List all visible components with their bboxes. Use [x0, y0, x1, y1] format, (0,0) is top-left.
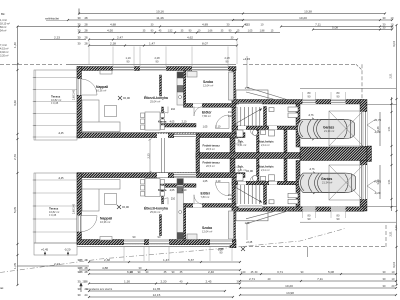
svg-text:Kamra: Kamra — [158, 120, 167, 124]
svg-text:±0,00: ±0,00 — [246, 169, 253, 173]
svg-text:54 m²: 54 m² — [0, 30, 7, 33]
svg-text:+0,45: +0,45 — [41, 248, 49, 252]
svg-text:7,11: 7,11 — [315, 23, 321, 27]
svg-text:28: 28 — [85, 266, 88, 270]
svg-text:4,50: 4,50 — [107, 29, 113, 33]
svg-text:±0,00: ±0,00 — [123, 96, 130, 100]
svg-text:Házt.helyis: Házt.helyis — [258, 165, 274, 169]
svg-text:+4,15: +4,15 — [243, 57, 251, 61]
svg-text:30: 30 — [78, 42, 81, 46]
svg-text:1,52: 1,52 — [168, 30, 173, 33]
svg-text:25,04 m²: 25,04 m² — [150, 210, 160, 214]
svg-text:10,38: 10,38 — [304, 10, 312, 14]
svg-text:2,51: 2,51 — [389, 73, 393, 79]
svg-text:± 0,45: ± 0,45 — [51, 101, 59, 105]
svg-text:1,75: 1,75 — [245, 222, 250, 225]
svg-text:Előtér: Előtér — [201, 192, 211, 196]
svg-text:1,00: 1,00 — [241, 271, 246, 274]
svg-text:12,04 m²: 12,04 m² — [202, 230, 212, 234]
svg-text:20,5 m²: 20,5 m² — [206, 147, 215, 151]
svg-text:Nappali: Nappali — [96, 85, 108, 89]
svg-text:3,04: 3,04 — [392, 41, 396, 47]
svg-text:2,23: 2,23 — [146, 153, 150, 159]
svg-text:Szoba: Szoba — [203, 80, 213, 84]
svg-text:térrendezés terv szerint: térrendezés terv szerint — [86, 288, 112, 291]
svg-text:Nappali: Nappali — [100, 217, 112, 221]
svg-text:21,34 m²: 21,34 m² — [322, 181, 332, 185]
svg-text:28: 28 — [85, 23, 88, 27]
svg-text:2,47: 2,47 — [117, 36, 123, 40]
svg-text:7,11: 7,11 — [317, 277, 323, 281]
svg-text:4,88: 4,88 — [102, 266, 108, 270]
svg-text:Kamra: Kamra — [158, 188, 167, 192]
svg-text:4,88: 4,88 — [110, 23, 116, 27]
svg-text:melléképület: melléképület — [45, 18, 59, 21]
svg-text:3,71: 3,71 — [277, 270, 283, 274]
svg-text:2,38: 2,38 — [104, 258, 110, 262]
svg-text:2,10: 2,10 — [182, 189, 187, 192]
svg-text:2,10: 2,10 — [182, 121, 187, 124]
svg-text:Zuh.: Zuh. — [238, 140, 244, 144]
svg-text:Bk:: Bk: — [1, 12, 6, 16]
svg-text:2,23: 2,23 — [54, 36, 60, 40]
svg-text:Zuh.: Zuh. — [238, 165, 244, 169]
svg-text:-0,20: -0,20 — [64, 248, 71, 252]
svg-text:3,20 m²: 3,20 m² — [0, 55, 9, 58]
svg-text:Garázs: Garázs — [323, 126, 334, 130]
svg-text:30: 30 — [78, 16, 81, 20]
svg-text:1,47: 1,47 — [149, 42, 155, 46]
svg-text:28: 28 — [85, 36, 88, 40]
svg-text:± 0,45: ± 0,45 — [49, 213, 57, 217]
svg-text:7,80 m²: 7,80 m² — [201, 195, 210, 199]
svg-text:11,46: 11,46 — [156, 16, 164, 20]
svg-text:10,20: 10,20 — [285, 284, 293, 288]
svg-text:5,37: 5,37 — [188, 258, 194, 262]
svg-text:5,05: 5,05 — [13, 207, 17, 213]
svg-text:2,11 m²: 2,11 m² — [261, 143, 270, 147]
svg-text:10,20: 10,20 — [299, 16, 307, 20]
svg-text:28: 28 — [85, 42, 88, 46]
svg-text:Terasz: Terasz — [49, 207, 59, 211]
svg-text:25,04 m²: 25,04 m² — [150, 100, 160, 104]
svg-text:1,47: 1,47 — [163, 258, 169, 262]
svg-text:21,34 m²: 21,34 m² — [324, 129, 334, 133]
svg-text:1,88: 1,88 — [260, 30, 265, 33]
svg-text:-0,76: -0,76 — [308, 114, 314, 117]
svg-text:5,08: 5,08 — [332, 26, 338, 30]
svg-text:2,51: 2,51 — [389, 231, 393, 237]
svg-text:2,71: 2,71 — [249, 277, 255, 281]
svg-text:2,60 2,40: 2,60 2,40 — [73, 89, 76, 100]
svg-text:210: 210 — [171, 198, 176, 201]
svg-text:2,60 2,40: 2,60 2,40 — [73, 203, 76, 214]
svg-text:30: 30 — [78, 287, 81, 291]
svg-text:±0,00: ±0,00 — [122, 205, 129, 209]
svg-text:28: 28 — [85, 29, 88, 33]
svg-text:3,04: 3,04 — [392, 262, 396, 268]
svg-text:4,89: 4,89 — [202, 23, 208, 27]
svg-text:30: 30 — [78, 36, 81, 40]
svg-text:Házt.helyis: Házt.helyis — [258, 140, 274, 144]
svg-text:4,05: 4,05 — [170, 121, 175, 124]
svg-text:12,15: 12,15 — [153, 293, 161, 297]
svg-text:240: 240 — [228, 198, 233, 201]
svg-text:3,46: 3,46 — [376, 126, 380, 132]
svg-text:2,40: 2,40 — [208, 270, 214, 274]
svg-text:8,07: 8,07 — [202, 42, 208, 46]
svg-text:1,05: 1,05 — [203, 180, 208, 183]
svg-text:24: 24 — [85, 293, 88, 297]
svg-text:1,51: 1,51 — [387, 179, 391, 185]
svg-text:1,51: 1,51 — [387, 126, 391, 132]
svg-text:2,38: 2,38 — [110, 42, 116, 46]
svg-text:210: 210 — [228, 111, 233, 114]
svg-text:1,05: 1,05 — [13, 263, 17, 269]
svg-text:11,35: 11,35 — [153, 287, 161, 291]
svg-text:Garázs: Garázs — [321, 177, 332, 181]
svg-text:-0,45: -0,45 — [58, 132, 64, 135]
svg-text:240: 240 — [228, 115, 233, 118]
svg-text:10,16: 10,16 — [156, 10, 164, 14]
svg-text:2,76: 2,76 — [13, 154, 17, 160]
svg-text:1,05: 1,05 — [203, 125, 208, 128]
svg-text:Szoba: Szoba — [202, 226, 212, 230]
svg-text:2,10: 2,10 — [216, 180, 221, 183]
svg-text:-0,45: -0,45 — [58, 177, 64, 180]
svg-text:1,40: 1,40 — [13, 42, 17, 48]
svg-text:28: 28 — [85, 16, 88, 20]
svg-text:1,05: 1,05 — [248, 30, 253, 33]
svg-text:Étkező-konyha: Étkező-konyha — [144, 206, 168, 211]
svg-text:30: 30 — [78, 29, 81, 33]
svg-text:28: 28 — [85, 270, 88, 274]
svg-text:1,75: 1,75 — [245, 87, 250, 90]
svg-text:210: 210 — [228, 194, 233, 197]
svg-text:Fedett terasz: Fedett terasz — [203, 144, 221, 148]
svg-text:30: 30 — [78, 293, 81, 297]
svg-text:7,80 m²: 7,80 m² — [202, 114, 211, 118]
svg-text:2,23: 2,23 — [54, 262, 60, 266]
svg-text:2,41 m²: 2,41 m² — [238, 143, 247, 147]
svg-text:210: 210 — [171, 108, 176, 111]
svg-text:13,98: 13,98 — [286, 291, 294, 295]
svg-text:Előtér: Előtér — [202, 111, 212, 115]
svg-text:4,62: 4,62 — [187, 36, 193, 40]
svg-text:12,04 m²: 12,04 m² — [203, 84, 213, 88]
svg-text:1,66: 1,66 — [208, 30, 213, 33]
svg-text:+0,76: +0,76 — [374, 118, 382, 122]
svg-text:3,46: 3,46 — [376, 179, 380, 185]
svg-text:30: 30 — [78, 23, 81, 27]
svg-text:2,10: 2,10 — [216, 125, 221, 128]
svg-text:3,60: 3,60 — [13, 100, 17, 106]
svg-text:2,20: 2,20 — [160, 280, 166, 284]
svg-text:28: 28 — [85, 258, 88, 262]
svg-text:2,45: 2,45 — [205, 280, 211, 284]
svg-text:20,5 m²: 20,5 m² — [206, 164, 215, 168]
svg-text:2,23: 2,23 — [394, 225, 398, 231]
svg-text:Terasz: Terasz — [51, 95, 61, 99]
svg-text:2,11 m²: 2,11 m² — [261, 168, 270, 172]
svg-text:30: 30 — [78, 280, 81, 284]
svg-text:16,36 m²: 16,36 m² — [100, 220, 110, 224]
svg-text:4,05: 4,05 — [170, 189, 175, 192]
svg-text:Fedett terasz: Fedett terasz — [203, 161, 221, 165]
svg-text:-0,76: -0,76 — [309, 168, 315, 171]
svg-text:5,08: 5,08 — [328, 270, 334, 274]
svg-text:16,36 m²: 16,36 m² — [96, 89, 106, 93]
svg-text:1,30: 1,30 — [124, 280, 130, 284]
svg-text:Étkező-konyha: Étkező-konyha — [144, 95, 168, 100]
svg-text:+0,45: +0,45 — [246, 241, 253, 244]
